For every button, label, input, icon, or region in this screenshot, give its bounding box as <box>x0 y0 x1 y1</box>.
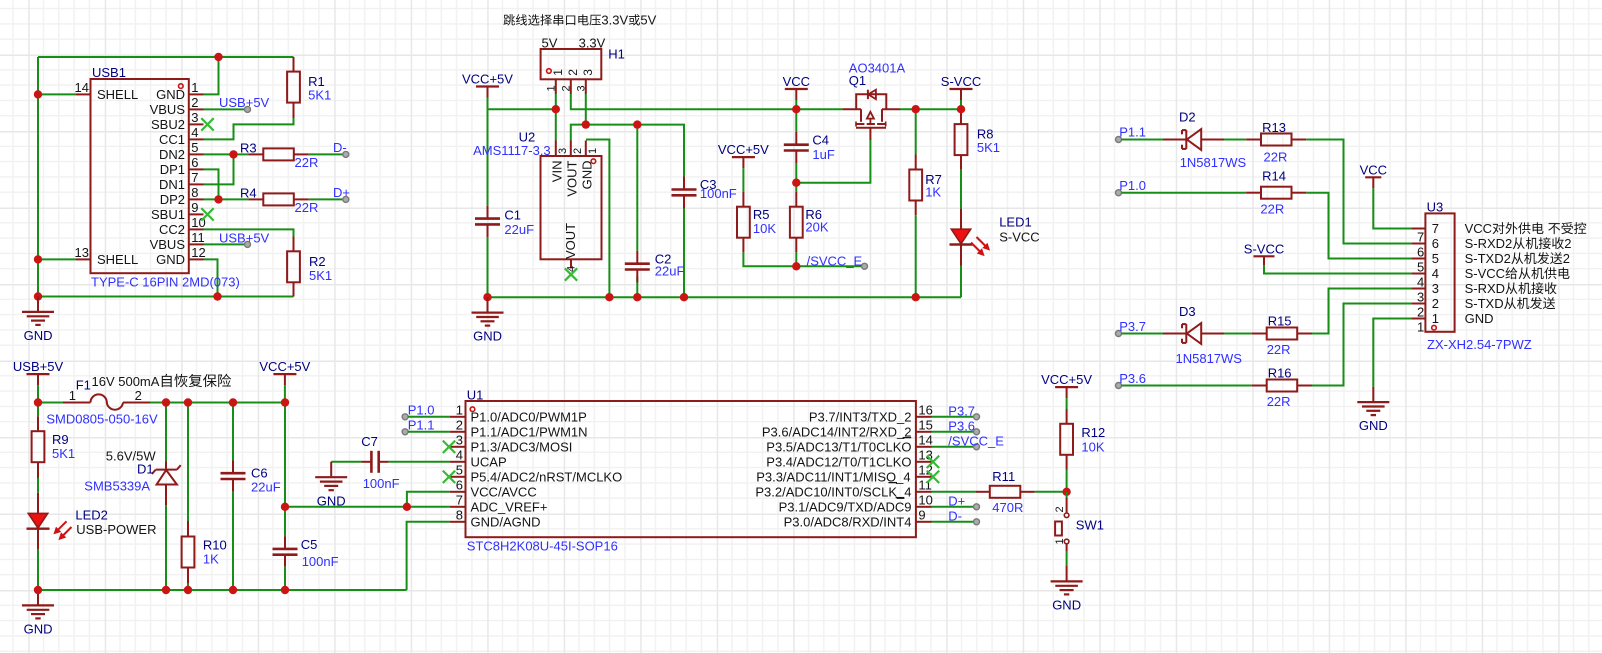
svg-text:R10: R10 <box>203 538 227 553</box>
svg-text:10K: 10K <box>753 221 776 236</box>
net label /SVCC_E mcu <box>932 446 977 448</box>
svg-text:S-RXD: S-RXD <box>1465 281 1505 296</box>
svg-text:2: 2 <box>572 148 584 154</box>
svg-text:P1.0: P1.0 <box>1119 178 1146 193</box>
net label P1.0 right <box>1116 190 1122 196</box>
wire LED1 to GND rail <box>960 266 962 298</box>
svg-text:6: 6 <box>456 478 463 493</box>
svg-text:VCC+5V: VCC+5V <box>259 359 310 374</box>
svg-text:P3.6/ADC14/INT2/RXD_2: P3.6/ADC14/INT2/RXD_2 <box>762 424 912 439</box>
junction H1 pin1 VCC+5V <box>552 105 560 113</box>
svg-text:100nF: 100nF <box>302 554 339 569</box>
svg-text:5V: 5V <box>640 13 656 28</box>
svg-text:H1: H1 <box>608 47 625 62</box>
svg-text:GND: GND <box>24 622 53 637</box>
junction pin12 GND <box>213 292 221 300</box>
svg-text:3: 3 <box>1432 281 1439 296</box>
svg-text:SBU1: SBU1 <box>151 207 185 222</box>
resistor R14 <box>1246 192 1261 194</box>
svg-text:1: 1 <box>1054 538 1066 544</box>
U1 pin 16 P3.7/INT3/TXD_2 <box>916 416 932 418</box>
svg-text:P3.2/ADC10/INT0/SCLK_4: P3.2/ADC10/INT0/SCLK_4 <box>755 484 911 499</box>
pin 3 SBU2 <box>189 123 204 125</box>
connector USB1 TYPE-C 16PIN <box>91 79 189 273</box>
svg-text:2: 2 <box>1432 296 1439 311</box>
switch SW1 <box>1066 492 1068 498</box>
junction C5 bottom rail <box>281 586 289 594</box>
junction GND left <box>34 292 42 300</box>
svg-text:3: 3 <box>456 433 463 448</box>
wire pin11 VBUS to USB+5V label <box>204 243 248 245</box>
resistor R5 <box>742 168 744 192</box>
ground GND C7 <box>330 462 332 477</box>
junction C3 bottom rail <box>680 293 688 301</box>
svg-text:R16: R16 <box>1268 366 1292 381</box>
resistor R15 <box>1252 333 1267 335</box>
svg-text:1: 1 <box>69 388 76 403</box>
svg-text:7: 7 <box>1417 230 1424 245</box>
svg-text:GND: GND <box>24 328 53 343</box>
svg-text:R3: R3 <box>240 140 257 155</box>
power flag VCC+5V pullup <box>1055 386 1078 388</box>
svg-text:USB1: USB1 <box>92 65 126 80</box>
svg-text:U2: U2 <box>519 129 536 144</box>
wire pin2 VBUS to USB+5V label <box>204 108 248 110</box>
wire U1 GND pin8 <box>407 522 450 590</box>
svg-text:6: 6 <box>191 155 198 170</box>
svg-text:D-: D- <box>948 508 962 523</box>
svg-text:5K1: 5K1 <box>309 268 332 283</box>
no-connect U1 pin12 <box>927 471 939 483</box>
svg-text:3: 3 <box>557 148 569 154</box>
svg-text:S-TXD: S-TXD <box>1465 296 1504 311</box>
svg-text:5: 5 <box>191 140 198 155</box>
wire VCC to U3 pin7 <box>1373 188 1411 228</box>
wire R1 bottom to CC1 pin4 <box>204 118 294 139</box>
wire VCC to U1 pins 6 7 <box>285 506 450 508</box>
svg-text:P3.7: P3.7 <box>1119 319 1146 334</box>
wire R4 to D+ label <box>309 198 346 200</box>
pin 2 VBUS <box>189 108 204 110</box>
junction shell pin14 <box>34 90 42 98</box>
svg-text:2: 2 <box>1054 506 1066 512</box>
svg-text:P3.4/ADC12/T0/T1CLKO: P3.4/ADC12/T0/T1CLKO <box>766 454 911 469</box>
svg-text:D1: D1 <box>137 461 154 476</box>
svg-text:VCC+5V: VCC+5V <box>1041 372 1092 387</box>
svg-text:4: 4 <box>456 448 463 463</box>
svg-text:3: 3 <box>575 85 587 91</box>
resistor R16 <box>1252 385 1267 387</box>
svg-text:2: 2 <box>1563 251 1570 266</box>
svg-text:S-VCC: S-VCC <box>1244 241 1284 256</box>
svg-text:VBUS: VBUS <box>150 102 186 117</box>
svg-text:5V: 5V <box>542 36 558 51</box>
svg-text:20K: 20K <box>805 220 828 235</box>
net label P3.6 mcu <box>932 431 977 433</box>
svg-text:S-VCC: S-VCC <box>941 74 981 89</box>
svg-text:D3: D3 <box>1179 304 1196 319</box>
wire VCC+5V bus to H1 pin1 <box>488 108 556 110</box>
svg-text:VCC+5V: VCC+5V <box>462 72 513 87</box>
svg-text:1K: 1K <box>203 552 219 567</box>
U1 pin 14 P3.5/ADC13/T1/T0CLKO <box>916 446 932 448</box>
svg-text:GND: GND <box>1052 598 1081 613</box>
svg-text:GND: GND <box>473 329 502 344</box>
svg-text:GND: GND <box>1359 418 1388 433</box>
svg-text:R5: R5 <box>753 207 770 222</box>
svg-text:CC2: CC2 <box>159 222 185 237</box>
svg-text:1: 1 <box>587 148 599 154</box>
wire D3 to R15 <box>1224 333 1252 335</box>
svg-text:UCAP: UCAP <box>471 454 507 469</box>
svg-text:C6: C6 <box>251 466 268 481</box>
net label P1.1 mcu <box>402 429 408 435</box>
svg-text:D-: D- <box>333 140 347 155</box>
power flag VCC+5V R5 <box>732 156 755 158</box>
pin 9 SBU1 <box>189 213 204 215</box>
svg-text:P1.0/ADC0/PWM1P: P1.0/ADC0/PWM1P <box>471 409 587 424</box>
resistor R11 <box>932 491 976 493</box>
svg-text:22R: 22R <box>295 200 319 215</box>
svg-text:S-VCC: S-VCC <box>999 230 1039 245</box>
svg-text:8: 8 <box>456 508 463 523</box>
svg-text:SHELL: SHELL <box>97 87 138 102</box>
svg-text:P3.7: P3.7 <box>948 403 975 418</box>
junction U2 GND rail <box>605 293 613 301</box>
active-low overlines on U1 right pin names <box>903 437 912 439</box>
svg-text:8: 8 <box>191 185 198 200</box>
no-connect U1 pin13 <box>927 456 939 468</box>
svg-text:F1: F1 <box>76 378 91 393</box>
svg-text:16V 500mA: 16V 500mA <box>92 374 160 389</box>
LED LED2 <box>37 493 39 514</box>
svg-text:SMD0805-050-16V: SMD0805-050-16V <box>46 411 158 426</box>
wire shell left vertical <box>37 57 39 297</box>
svg-text:2: 2 <box>1564 236 1571 251</box>
diode D2 1N5817WS <box>1163 139 1186 141</box>
svg-text:100nF: 100nF <box>363 476 400 491</box>
diode D3 1N5817WS <box>1163 333 1186 335</box>
power flag USB+5V input <box>27 373 50 375</box>
svg-text:12: 12 <box>191 245 205 260</box>
svg-text:GND: GND <box>156 87 185 102</box>
wire P1.0 to R14 <box>1122 192 1247 194</box>
svg-text:3.3V: 3.3V <box>601 13 628 28</box>
wire P1.1 to D2 <box>1122 139 1164 141</box>
svg-text:/SVCC_E: /SVCC_E <box>807 253 863 268</box>
svg-text:5: 5 <box>1417 260 1424 275</box>
power flag VCC right <box>1365 176 1381 178</box>
wire C1 bottom <box>487 237 489 297</box>
resistor R8 <box>960 109 962 124</box>
svg-text:1uF: 1uF <box>812 147 834 162</box>
svg-text:22uF: 22uF <box>504 222 534 237</box>
pin 1 GND <box>189 93 204 95</box>
svg-text:2: 2 <box>191 95 198 110</box>
svg-text:U1: U1 <box>467 388 484 403</box>
junction DP2 <box>214 195 222 203</box>
wire GND bottom <box>38 296 294 298</box>
svg-text:1: 1 <box>1417 320 1424 335</box>
wire C3 bottom <box>683 202 685 297</box>
pin 7 DN1 <box>189 183 204 185</box>
ground GND SW1 <box>1066 566 1068 581</box>
junction VCC C4 <box>792 105 800 113</box>
wire S-VCC to U3 pin4 <box>1264 265 1411 273</box>
diode D1 zener SMB5339A <box>165 403 167 462</box>
svg-text:3: 3 <box>581 69 595 76</box>
svg-text:TYPE-C 16PIN 2MD(073): TYPE-C 16PIN 2MD(073) <box>91 275 240 290</box>
wire pin7 DN1 junction <box>204 154 234 184</box>
capacitor C5 <box>284 403 286 537</box>
svg-text:DN1: DN1 <box>159 177 185 192</box>
Q1 channel and gate <box>856 123 864 125</box>
svg-text:2: 2 <box>566 69 580 76</box>
svg-text:GND/AGND: GND/AGND <box>471 514 541 529</box>
svg-text:USB+5V: USB+5V <box>219 230 270 245</box>
svg-text:16: 16 <box>918 403 932 418</box>
wire C2 top <box>636 125 638 251</box>
svg-text:R2: R2 <box>309 254 326 269</box>
svg-text:1: 1 <box>545 85 557 91</box>
wire pin5 DN2 to R3 <box>204 153 249 155</box>
wire LED2 to GND <box>37 550 39 590</box>
junction R9 GND rail <box>34 586 42 594</box>
U3 pin 6 <box>1411 243 1425 245</box>
svg-text:5: 5 <box>456 463 463 478</box>
header H1 <box>541 49 602 79</box>
svg-text:C5: C5 <box>301 537 318 552</box>
resistor R13 <box>1246 139 1261 141</box>
svg-text:P3.7/INT3/TXD_2: P3.7/INT3/TXD_2 <box>809 409 912 424</box>
wire 3.3V VOUT rail <box>571 125 684 177</box>
svg-text:1N5817WS: 1N5817WS <box>1176 351 1243 366</box>
net label P3.6 right <box>1116 383 1122 389</box>
svg-text:C4: C4 <box>812 133 829 148</box>
power flag VCC <box>785 88 808 90</box>
svg-text:1: 1 <box>191 80 198 95</box>
svg-text:LED2: LED2 <box>75 508 108 523</box>
svg-text:P1.3/ADC3/MOSI: P1.3/ADC3/MOSI <box>471 439 573 454</box>
junction USB+5V R9 <box>34 398 42 406</box>
svg-text:1: 1 <box>456 403 463 418</box>
capacitor C6 <box>232 403 234 461</box>
U2 pin 3 VIN <box>555 141 557 157</box>
wire P3.6 to R16 <box>1122 385 1252 387</box>
resistor R3 <box>248 153 263 155</box>
svg-text:22R: 22R <box>1267 342 1291 357</box>
ground GND regulator <box>487 297 489 312</box>
svg-text:P1.1: P1.1 <box>408 418 435 433</box>
U1 pin 12 P3.3/ADC11/INT1/MISO_4 <box>916 476 932 478</box>
junction R10 bottom rail <box>184 586 192 594</box>
pin 14 SHELL <box>76 93 91 95</box>
wire pin14 SHELL <box>38 93 76 95</box>
U1 pin 8 GND/AGND <box>450 521 466 523</box>
svg-text:P1.1: P1.1 <box>1119 125 1146 140</box>
svg-text:2: 2 <box>456 418 463 433</box>
U1 pin 1 P1.0/ADC0/PWM1P <box>450 416 466 418</box>
H1 pin 3 <box>585 79 587 94</box>
net label D- mcu <box>932 521 977 523</box>
svg-text:R14: R14 <box>1262 169 1286 184</box>
wire pin1 GND to VBUS <box>204 57 219 94</box>
resistor R9 <box>37 403 39 417</box>
svg-text:9: 9 <box>191 200 198 215</box>
svg-text:P1.1/ADC1/PWM1N: P1.1/ADC1/PWM1N <box>471 424 588 439</box>
pin 11 VBUS <box>189 243 204 245</box>
U3 pin 5 <box>1411 258 1425 260</box>
svg-text:22R: 22R <box>295 155 319 170</box>
svg-text:R15: R15 <box>1268 314 1292 329</box>
wire VCC net H1 pin2 to Q1 <box>571 94 843 109</box>
junction R7 bottom rail <box>912 293 920 301</box>
svg-text:AMS1117-3.3: AMS1117-3.3 <box>473 143 551 158</box>
U2 pin 2 VOUT <box>570 141 572 157</box>
svg-text:S-RXD2: S-RXD2 <box>1465 236 1513 251</box>
svg-text:R1: R1 <box>308 74 325 89</box>
junction shell pin13 <box>34 255 42 263</box>
junction DN2 <box>229 150 237 158</box>
svg-text:1K: 1K <box>925 184 941 199</box>
wire /SVCC_E stub <box>796 265 864 267</box>
svg-text:VOUT: VOUT <box>564 160 579 196</box>
junction D1 top <box>162 398 170 406</box>
U1 pin 15 P3.6/ADC14/INT2/RXD_2 <box>916 431 932 433</box>
U1 pin 13 P3.4/ADC12/T0/T1CLKO <box>916 461 932 463</box>
svg-text:VCC: VCC <box>783 74 810 89</box>
net label P1.0 mcu <box>402 414 408 420</box>
svg-text:R11: R11 <box>992 469 1015 484</box>
svg-text:7: 7 <box>1432 221 1439 236</box>
pin 10 CC2 <box>189 228 204 230</box>
capacitor C3 <box>683 177 685 190</box>
svg-text:9: 9 <box>918 508 925 523</box>
svg-text:13: 13 <box>75 245 89 260</box>
fuse F1 <box>38 402 63 404</box>
svg-text:4: 4 <box>191 125 198 140</box>
svg-text:10: 10 <box>918 493 932 508</box>
svg-text:SHELL: SHELL <box>97 252 138 267</box>
U1 pin 4 UCAP <box>450 461 466 463</box>
svg-text:P3.1/ADC9/TXD/ADC9: P3.1/ADC9/TXD/ADC9 <box>779 499 912 514</box>
svg-text:6: 6 <box>1432 236 1439 251</box>
power flag VCC+5V regulator input <box>476 85 499 87</box>
svg-text:D+: D+ <box>333 185 350 200</box>
svg-text:P3.6: P3.6 <box>1119 371 1146 386</box>
svg-text:USB+5V: USB+5V <box>13 359 64 374</box>
resistor R7 <box>915 109 917 154</box>
pin 8 DP2 <box>189 198 204 200</box>
no-connect pin3 SBU2 <box>201 118 213 130</box>
pin 6 DP1 <box>189 168 204 170</box>
wire H1 pin1 to U2 VIN <box>555 94 557 141</box>
svg-text:1N5817WS: 1N5817WS <box>1180 155 1247 170</box>
net label P3.7 right <box>1116 331 1122 337</box>
junction R11 R12 SW1 <box>1062 488 1070 496</box>
wire C1 top <box>487 109 489 206</box>
wire VBUS top <box>38 56 294 58</box>
connector U3 ZX-XH2.54-7PWZ <box>1425 213 1454 331</box>
svg-text:C7: C7 <box>361 434 378 449</box>
svg-text:22uF: 22uF <box>251 479 281 494</box>
junction H1 pin3 3.3V <box>582 120 590 128</box>
junction R5 R6 SVCC_E <box>792 262 800 270</box>
net label D- <box>343 151 349 157</box>
svg-text:VCC: VCC <box>1465 221 1492 236</box>
U2 pin 1 GND <box>585 141 587 157</box>
no-connect U1 pin5 <box>443 471 455 483</box>
svg-text:VCC/AVCC: VCC/AVCC <box>471 484 537 499</box>
svg-text:ADC_VREF+: ADC_VREF+ <box>471 499 548 514</box>
regulator U2 AMS1117-3.3 <box>541 156 602 259</box>
net label USB+5V pin2 <box>245 106 251 112</box>
U1 pin 5 P5.4/ADC2/nRST/MCLKO <box>450 476 466 478</box>
svg-text:CC1: CC1 <box>159 132 185 147</box>
net label D+ <box>343 196 349 202</box>
svg-text:2: 2 <box>560 85 572 91</box>
net label USB+5V pin11 <box>245 241 251 247</box>
svg-text:5K1: 5K1 <box>977 140 1000 155</box>
capacitor C1 <box>487 206 489 219</box>
U1 pin 11 P3.2/ADC10/INT0/SCLK_4 <box>916 491 932 493</box>
wire R16 to U3 pin2 <box>1312 304 1411 386</box>
svg-text:DP1: DP1 <box>160 162 185 177</box>
MCU U1 STC8H2K08U <box>466 401 916 537</box>
svg-text:GND: GND <box>1465 311 1494 326</box>
svg-text:P5.4/ADC2/nRST/MCLKO: P5.4/ADC2/nRST/MCLKO <box>471 469 623 484</box>
U2 pin 4 VOUT no-connect <box>570 259 572 268</box>
junction Q1 gate C4 <box>792 179 800 187</box>
svg-text:D+: D+ <box>948 493 965 508</box>
svg-text:7: 7 <box>456 493 463 508</box>
capacitor C4 <box>795 109 797 132</box>
wire P1.0 <box>408 416 450 418</box>
ground GND usb <box>37 297 39 312</box>
svg-text:USB+5V: USB+5V <box>219 95 270 110</box>
svg-text:SMB5339A: SMB5339A <box>84 479 150 494</box>
svg-text:P3.0/ADC8/RXD/INT4: P3.0/ADC8/RXD/INT4 <box>784 514 912 529</box>
svg-text:DP2: DP2 <box>160 192 185 207</box>
svg-text:P1.0: P1.0 <box>408 403 435 418</box>
svg-text:22uF: 22uF <box>655 263 685 278</box>
junction VCC+5V C5 <box>281 398 289 406</box>
junction C1 GND rail <box>483 293 491 301</box>
wire U3 pin1 to GND <box>1373 319 1411 387</box>
svg-text:ZX-XH2.54-7PWZ: ZX-XH2.54-7PWZ <box>1427 337 1532 352</box>
title text <box>503 14 514 25</box>
wire D2 to R13 <box>1224 139 1246 141</box>
Q1 body diode <box>867 90 869 99</box>
svg-text:1: 1 <box>551 69 565 76</box>
svg-text:22R: 22R <box>1267 394 1291 409</box>
svg-text:USB-POWER: USB-POWER <box>76 522 156 537</box>
svg-text:2: 2 <box>1417 305 1424 320</box>
U3 pin 4 <box>1411 273 1425 275</box>
resistor R10 <box>187 403 189 522</box>
power flag S-VCC right <box>1254 255 1275 257</box>
no-connect pin9 SBU1 <box>201 208 213 220</box>
junction C2 bottom rail <box>633 293 641 301</box>
U3 pin 3 <box>1411 288 1425 290</box>
junction VBUS top <box>214 53 222 61</box>
svg-text:470R: 470R <box>992 500 1023 515</box>
wire pin13 SHELL <box>38 258 76 260</box>
net label /SVCC_E <box>862 263 868 269</box>
LED LED1 <box>960 209 962 230</box>
svg-text:SW1: SW1 <box>1076 518 1104 533</box>
U1 pin 6 VCC/AVCC <box>450 491 466 493</box>
